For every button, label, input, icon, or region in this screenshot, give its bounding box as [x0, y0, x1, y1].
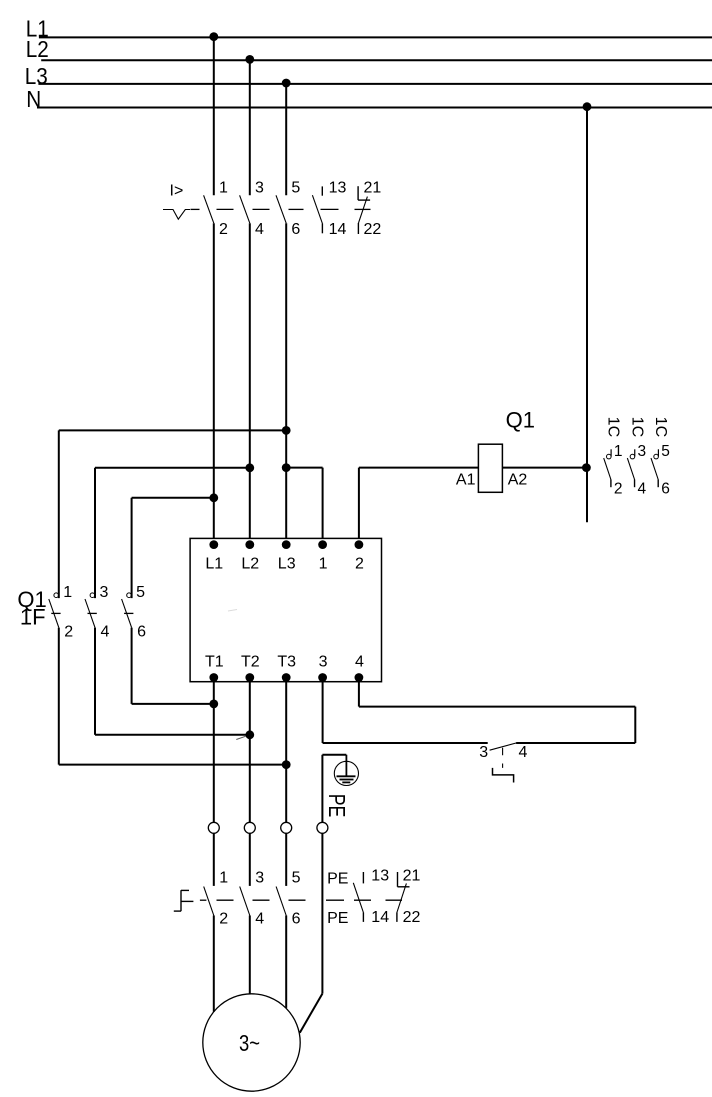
svg-text:4: 4	[519, 744, 528, 761]
svg-text:14: 14	[329, 221, 347, 238]
svg-text:3~: 3~	[239, 1031, 260, 1056]
svg-text:A1: A1	[456, 472, 476, 489]
svg-text:3: 3	[255, 180, 264, 197]
svg-text:3: 3	[479, 744, 488, 761]
svg-text:L2: L2	[26, 36, 49, 62]
svg-text:3: 3	[319, 653, 328, 670]
svg-text:4: 4	[255, 221, 264, 238]
svg-text:6: 6	[661, 480, 670, 497]
svg-text:T3: T3	[277, 653, 296, 670]
svg-text:1: 1	[219, 180, 228, 197]
svg-text:PE: PE	[323, 794, 349, 818]
svg-text:2: 2	[355, 556, 364, 573]
svg-text:1C: 1C	[628, 417, 645, 437]
svg-text:Q1: Q1	[506, 407, 535, 432]
svg-text:1: 1	[614, 443, 623, 460]
svg-text:2: 2	[219, 221, 228, 238]
svg-text:I>: I>	[170, 183, 184, 200]
svg-text:L2: L2	[241, 556, 259, 573]
svg-text:3: 3	[100, 584, 109, 601]
svg-text:5: 5	[292, 869, 301, 886]
svg-text:1C: 1C	[605, 417, 622, 437]
svg-text:1C: 1C	[652, 417, 669, 437]
svg-text:L3: L3	[278, 556, 296, 573]
svg-text:14: 14	[371, 909, 389, 926]
svg-text:2: 2	[219, 910, 228, 927]
svg-text:3: 3	[255, 869, 264, 886]
svg-text:1: 1	[63, 584, 72, 601]
svg-text:3: 3	[638, 443, 647, 460]
svg-text:5: 5	[291, 180, 300, 197]
svg-text:4: 4	[255, 910, 264, 927]
svg-text:A2: A2	[508, 472, 528, 489]
svg-text:21: 21	[364, 180, 382, 197]
svg-text:4: 4	[101, 623, 110, 640]
svg-text:T1: T1	[205, 653, 224, 670]
svg-text:1: 1	[319, 556, 328, 573]
svg-text:13: 13	[329, 180, 347, 197]
svg-text:1: 1	[219, 869, 228, 886]
svg-text:2: 2	[614, 480, 623, 497]
svg-text:13: 13	[371, 867, 389, 884]
svg-text:1F: 1F	[20, 605, 46, 630]
svg-text:6: 6	[137, 623, 146, 640]
svg-text:6: 6	[292, 910, 301, 927]
svg-text:L1: L1	[205, 556, 223, 573]
svg-text:22: 22	[364, 221, 382, 238]
svg-text:5: 5	[661, 443, 670, 460]
svg-text:PE: PE	[327, 910, 348, 927]
svg-text:T2: T2	[241, 653, 260, 670]
svg-text:PE: PE	[327, 871, 348, 888]
svg-text:22: 22	[403, 909, 421, 926]
svg-text:4: 4	[638, 480, 647, 497]
svg-text:6: 6	[291, 221, 300, 238]
svg-text:21: 21	[403, 867, 421, 884]
svg-text:5: 5	[136, 584, 145, 601]
svg-text:4: 4	[355, 653, 364, 670]
svg-text:2: 2	[64, 623, 73, 640]
